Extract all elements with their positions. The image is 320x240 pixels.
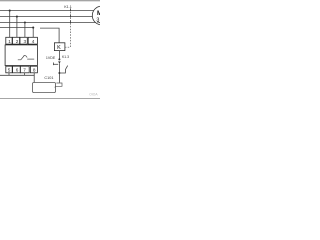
test point arrow line	[53, 63, 58, 65]
svg-text:7: 7	[23, 68, 26, 73]
svg-text:6: 6	[16, 68, 19, 73]
contact tick K1.1 phase L2	[70, 14, 72, 17]
node junction L3	[24, 21, 26, 23]
svg-text:1: 1	[8, 39, 11, 44]
wire stub terminal 5	[8, 73, 10, 76]
node dot branch	[58, 72, 60, 74]
wire stub terminal 7	[24, 73, 26, 76]
connector triangle	[58, 61, 61, 63]
svg-text:K: K	[57, 45, 61, 51]
node junction L1	[9, 10, 11, 12]
wire phase L3	[0, 22, 96, 24]
wire collector to C101	[0, 75, 34, 82]
wire drop to terminal 3	[24, 23, 26, 38]
wire branch with blade contact	[59, 66, 67, 73]
contact tick K1.1 phase L3	[70, 20, 72, 23]
terminal 7	[20, 66, 29, 73]
terminal 2	[13, 37, 20, 44]
svg-text:M: M	[97, 11, 100, 17]
svg-text:8: 8	[33, 68, 36, 73]
mechanical linkage dashed vertical	[70, 12, 72, 47]
wire top border bus	[0, 0, 100, 2]
wire below coil	[58, 51, 60, 60]
terminal 4	[28, 37, 37, 44]
terminal 5	[6, 66, 12, 73]
terminal 8	[30, 66, 37, 73]
svg-text:C101: C101	[44, 76, 53, 80]
timed contact inside module	[18, 55, 34, 60]
contact tick K1.1 phase L1	[70, 8, 72, 11]
wire drop to terminal 2	[16, 17, 18, 38]
motor label tilde	[97, 21, 100, 24]
node junction N	[32, 27, 34, 29]
relay coil K	[54, 43, 65, 51]
svg-text:4: 4	[32, 39, 35, 44]
terminal 3	[20, 37, 27, 44]
wire drop to terminal 4	[32, 28, 34, 38]
svg-text:K1.3: K1.3	[62, 55, 69, 59]
wire below triangle	[58, 64, 60, 83]
terminal 6	[13, 66, 21, 73]
wire neutral left piece	[0, 27, 33, 29]
svg-text:3: 3	[23, 39, 26, 44]
svg-text:1VDE: 1VDE	[46, 56, 56, 60]
motor M1 circle	[92, 6, 111, 25]
svg-text:OIOA: OIOA	[89, 93, 98, 97]
wire phase L1	[0, 10, 94, 12]
relay module body	[5, 45, 37, 66]
connector block C101	[33, 83, 56, 93]
node dot below coil	[58, 58, 60, 60]
svg-text:K1.1: K1.1	[64, 5, 72, 9]
wire phase L2	[0, 16, 92, 18]
wire stub terminal 8	[33, 73, 35, 76]
wire bottom border bus	[0, 97, 100, 99]
node junction L2	[16, 16, 18, 18]
test point tick	[52, 63, 54, 66]
mechanical linkage dashed horizontal	[65, 46, 71, 48]
wire drop to terminal 1	[9, 11, 11, 38]
terminal 1	[6, 37, 12, 44]
wire coil K feed	[40, 28, 59, 43]
connector bracket on C101	[55, 83, 62, 87]
svg-text:2: 2	[16, 39, 19, 44]
svg-text:5: 5	[8, 68, 11, 73]
